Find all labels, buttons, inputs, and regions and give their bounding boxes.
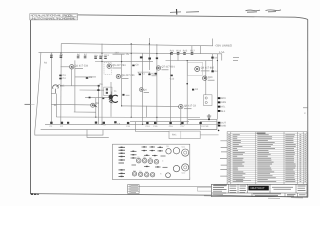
resistor R4 (84, 56, 87, 58)
svg-text:Q8 417-23: Q8 417-23 (184, 104, 196, 107)
capacitor C4 (132, 65, 134, 67)
junction dots (60, 43, 218, 125)
capacitor C20 (97, 89, 99, 91)
diode D4 (192, 89, 194, 91)
dense revision text left of title block (214, 184, 228, 186)
relay box bottom (169, 131, 200, 139)
svg-text:14V: 14V (115, 51, 120, 54)
wire: vertical x103.5 (101, 44, 103, 125)
resistor R6b (104, 57, 107, 59)
wire: y98 segment (85, 97, 111, 99)
svg-text:R27: R27 (190, 50, 195, 53)
bottom strip of title block (253, 194, 306, 196)
top middle pictograms (142, 147, 168, 167)
svg-text:R21: R21 (170, 50, 175, 53)
wire: vertical x200.3 stub (199, 46, 201, 54)
wire: left outer vertical (35, 52, 103, 135)
handwritten marks above top border (170, 10, 281, 13)
capacitor C1 (59, 75, 61, 77)
wire: vertical x111 (110, 82, 112, 117)
capacitor C13 (127, 122, 129, 124)
svg-text:YEL: YEL (221, 106, 226, 109)
wire: vertical x149.4 (148, 44, 150, 70)
faint text below bottom border (204, 196, 303, 199)
wire: vertical x121.6 (121, 55, 123, 106)
relay contact K2 (148, 58, 151, 60)
transistor Q2b (139, 88, 143, 92)
wire: +rail top (61, 44, 213, 46)
junction dot (218, 130, 220, 132)
sheet border (30, 14, 308, 197)
svg-text:Q6 417-291: Q6 417-291 (121, 74, 135, 77)
wire: y117 long run (56, 116, 200, 119)
svg-text:1.5A: 1.5A (219, 51, 225, 54)
wire: vertical x187.2 (186, 61, 188, 125)
svg-text:Q10: Q10 (208, 76, 213, 79)
diode D2 (148, 74, 150, 76)
wire: vertical x96 (95, 98, 97, 117)
wire: vertical x216.9 (216, 119, 218, 129)
capacitor C11 (95, 122, 97, 124)
resistor R2 (60, 56, 63, 58)
capacitor C12 (114, 121, 116, 123)
wire: y121.6 segment (130, 121, 189, 123)
connector P1 pins (dark blobs right side) (218, 97, 221, 126)
wire: vertical x170.5 (170, 53, 172, 124)
transistor Q2 (107, 64, 111, 68)
transistor label second lines (75, 68, 215, 109)
notes box top-left (30, 14, 78, 21)
wire: rail y77 (75, 76, 96, 78)
wire: vertical x98.6 (98, 86, 100, 125)
wire: right outer vertical (216, 54, 218, 120)
svg-text:HEATHKIT: HEATHKIT (251, 187, 265, 190)
capacitor C17 (181, 122, 183, 124)
border tick mark right (303, 107, 308, 109)
resistor R3 (77, 56, 80, 58)
svg-text:RY1: RY1 (172, 133, 177, 136)
left column part pictograms (119, 147, 126, 176)
wire tag labels right edge (233, 58, 239, 61)
wire: ground bus (45, 123, 219, 125)
junction dot (186, 83, 188, 85)
wire: vertical x212.6 (212, 54, 214, 71)
transistor Q3 (116, 74, 120, 78)
capacitor C18 (199, 122, 201, 124)
svg-text:R13: R13 (104, 54, 109, 57)
capacitor C3 (86, 77, 88, 79)
wire: short rail segment (113, 53, 125, 55)
TO-3 cans right (166, 149, 171, 154)
wire: y106 run (122, 105, 179, 108)
parts list table (227, 132, 307, 184)
svg-text:Q7 417-801: Q7 417-801 (162, 66, 176, 69)
wire: base wire into Q9 (51, 103, 91, 106)
svg-text:BLK: BLK (221, 110, 226, 113)
labels under ground bus (50, 123, 186, 129)
svg-text:+35V UNREG: +35V UNREG (215, 44, 233, 48)
wire: outer bottom loop (41, 128, 217, 130)
svg-text:RED: RED (221, 97, 226, 100)
ref-des fragments left of table (220, 141, 227, 176)
capacitor C10 (61, 122, 63, 124)
module box around Q5 (104, 62, 112, 74)
wire: diode link (138, 71, 151, 73)
transistor can circles row 1 (132, 148, 188, 178)
wire: Q1 emitter stub (71, 69, 73, 86)
transistor Q1 (70, 65, 74, 69)
capacitor C14 (146, 122, 148, 124)
capacitor C8 (98, 85, 100, 87)
driver transformer T1 (dark hatched blob) (109, 92, 130, 104)
wire: vertical x142.6 (142, 53, 144, 124)
wire: bottom box drop (134, 122, 136, 132)
resistor R7 (170, 53, 173, 55)
resistor R6 (99, 57, 102, 59)
wire: y119 right segment (188, 118, 217, 120)
transistor Q8 (179, 104, 183, 108)
capacitor C6 (89, 97, 91, 99)
left small cells text (213, 186, 306, 195)
wire: vertical x156.9 (156, 44, 158, 124)
transistor Q7 (91, 103, 95, 107)
svg-text:Q1 417-234: Q1 417-234 (75, 64, 89, 67)
resistor R1 (50, 56, 53, 58)
wire: rail y60 right (166, 60, 213, 62)
electrolytic caps on ground bus (50, 121, 202, 124)
svg-text:Q9 417-802: Q9 417-802 (201, 67, 215, 70)
svg-text:IN: IN (54, 104, 57, 107)
driver sub-box (104, 87, 112, 96)
wire: vertical x221.75 (221, 54, 223, 61)
company logo block (dark) (248, 186, 268, 191)
resistor R5 (94, 57, 97, 59)
wire: vertical x62 (60, 44, 62, 125)
svg-text:OUT: OUT (221, 122, 226, 125)
wire: vertical x212.6 top stub (212, 39, 214, 46)
svg-text:GND: GND (221, 124, 226, 127)
resistor R17 (156, 57, 158, 59)
transistor Q4 (156, 66, 160, 70)
transistor Q5 (195, 67, 200, 72)
resistor R19 (155, 73, 157, 75)
output terminal box (200, 122, 217, 130)
wire: vertical x51 (50, 53, 52, 125)
chassis layout inset (113, 144, 190, 179)
wire: bottom box top line (135, 130, 169, 132)
mid-left small pictograms (131, 151, 137, 165)
junction dot (208, 119, 210, 121)
capacitor C2 (59, 78, 61, 80)
border tick mark left (25, 103, 31, 105)
diode D5 (211, 57, 213, 59)
wire: vertical x205.8 (205, 61, 207, 95)
resistor R9 (183, 53, 186, 55)
wire: line from legend to title block (139, 185, 211, 187)
wire: feedback wire (62, 85, 99, 87)
wire: y112 segment (74, 111, 96, 113)
legend mini-table below inset (128, 185, 140, 194)
transistor labels (75, 64, 215, 108)
svg-text:R25: R25 (183, 50, 188, 53)
wire: vertical x131.2 (130, 44, 132, 117)
capacitor C7 (102, 98, 104, 100)
wire: y90 run (80, 89, 104, 91)
transistor can circles row 2 (132, 172, 136, 176)
wire: small box lower-left vertical (87, 130, 109, 138)
title text right of logo (272, 187, 293, 189)
svg-text:FU SE: FU SE (202, 125, 209, 128)
svg-text:C12: C12 (170, 77, 175, 80)
diode D1 (139, 74, 141, 76)
diode D3 (211, 70, 213, 72)
svg-text:Q5 417-234: Q5 417-234 (112, 64, 126, 67)
capacitor C15 (154, 122, 156, 124)
svg-text:UNLESS OTHERWISE SPECIFIED HER: UNLESS OTHERWISE SPECIFIED HERE (31, 17, 76, 21)
wire: second rail (39, 52, 223, 53)
wire: Q8 emitter (180, 109, 182, 125)
wire: vertical x178 (177, 53, 179, 60)
svg-text:R23: R23 (176, 50, 181, 53)
tiny labels in layout box (133, 145, 186, 176)
transistor Q6 (203, 76, 207, 80)
wire: vertical x191.9 stub (191, 46, 193, 54)
capacitor C5 (171, 75, 173, 77)
resistor R8 (177, 53, 180, 55)
wire: interstage wire y61.5 (95, 61, 153, 63)
wire: vertical x56 (55, 89, 58, 117)
component value labels scattered (44, 44, 232, 137)
wire: vertical x149.4 stub (148, 38, 150, 44)
bias network box around Q9 (188, 62, 203, 75)
thermal switch box (204, 95, 213, 106)
capacitor C16 (169, 122, 171, 124)
ground symbol (207, 114, 211, 118)
resistor R10 (191, 53, 194, 55)
arrow smudge on Q7 (94, 105, 98, 108)
wire: vertical x146.6 (146, 106, 148, 117)
parts list bottom band rows above title block (236, 180, 251, 182)
bias pot R11 (53, 85, 59, 89)
wire: Q1 base lead (61, 66, 70, 68)
svg-text:GRN: GRN (221, 101, 226, 104)
corner marks bottom-left (31, 193, 39, 195)
capacitor C9 (50, 122, 52, 124)
relay contact K1 (140, 56, 143, 58)
wire: vertical x75 (74, 60, 76, 112)
signature strip left of title block (198, 187, 212, 191)
